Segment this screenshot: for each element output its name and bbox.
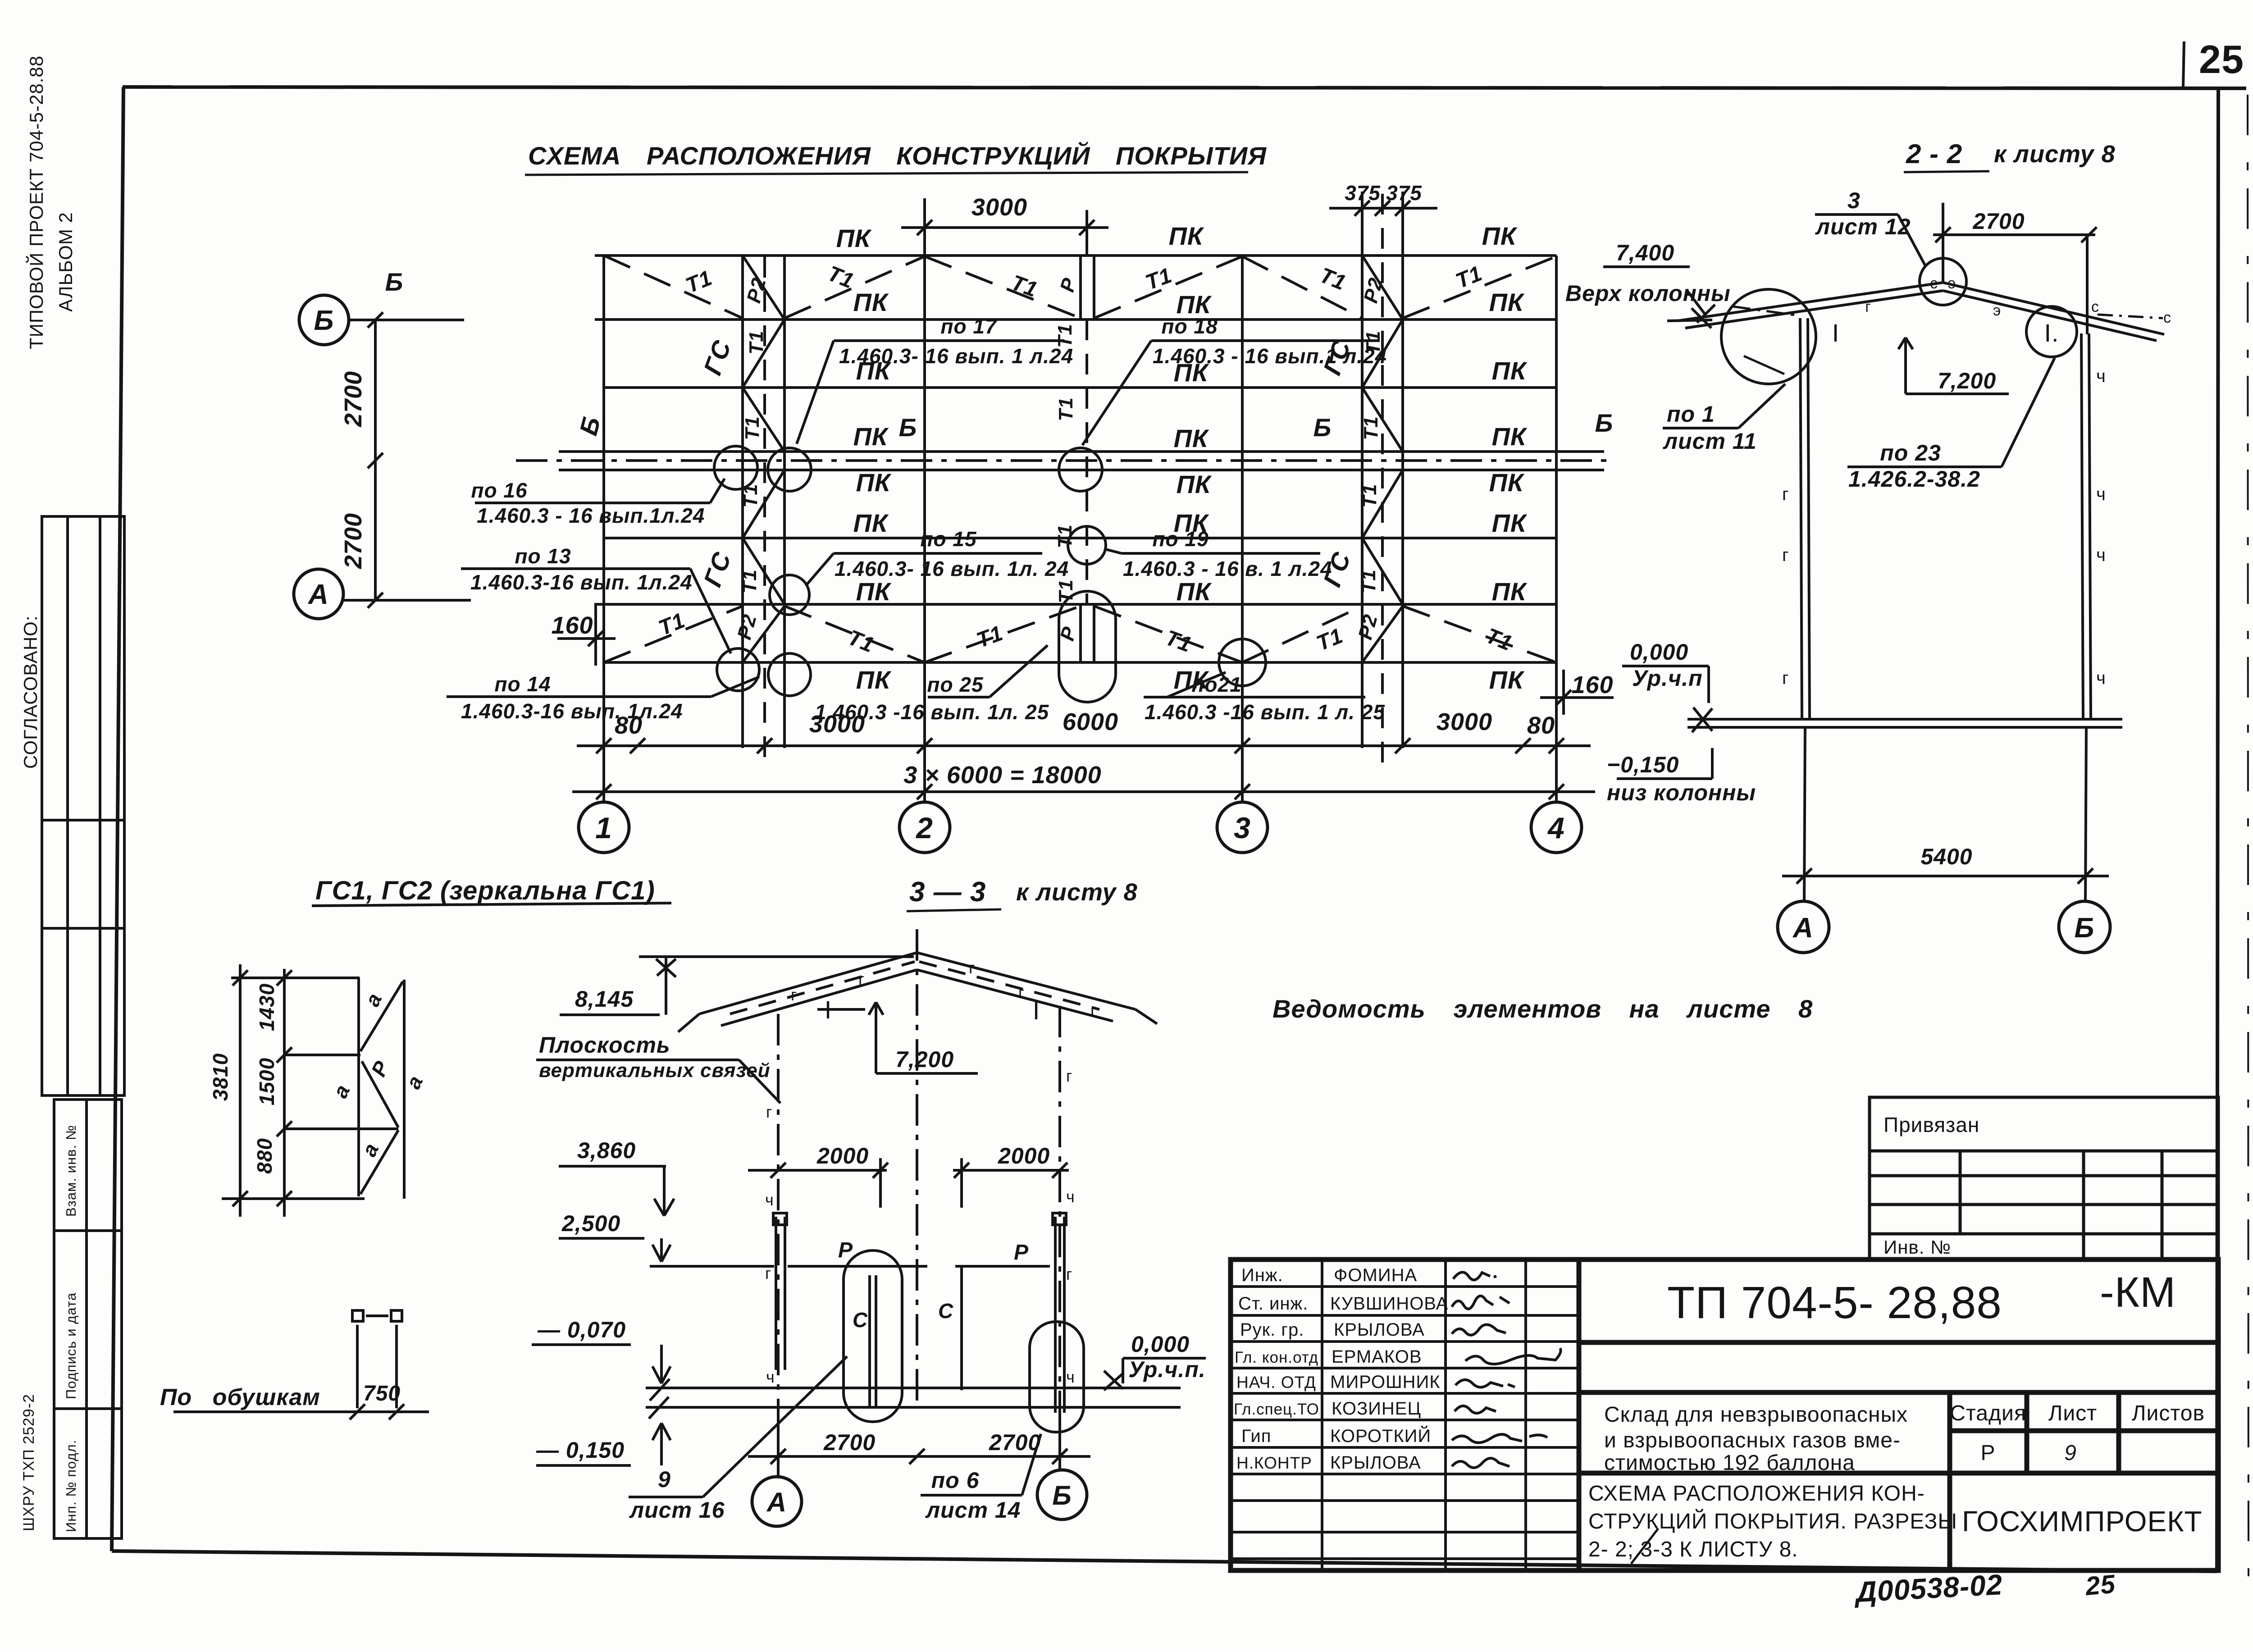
svg-text:1: 1 — [595, 811, 612, 844]
svg-text:2700: 2700 — [1972, 209, 2025, 234]
svg-text:г: г — [1782, 484, 1789, 504]
svg-text:А: А — [766, 1487, 787, 1517]
svg-text:СОГЛАСОВАНО:: СОГЛАСОВАНО: — [20, 616, 41, 769]
svg-text:Т1: Т1 — [1054, 524, 1076, 548]
svg-text:СТРУКЦИЙ ПОКРЫТИЯ. РАЗРЕЗЫ: СТРУКЦИЙ ПОКРЫТИЯ. РАЗРЕЗЫ — [1588, 1509, 1957, 1533]
svg-text:1.460.3-16 вып. 1л.24: 1.460.3-16 вып. 1л.24 — [461, 699, 683, 723]
svg-text:1.460.3- 16 вып. 1л. 24: 1.460.3- 16 вып. 1л. 24 — [835, 557, 1069, 580]
svg-text:по 6: по 6 — [931, 1468, 980, 1493]
svg-text:1.460.3-16 вып. 1л.24: 1.460.3-16 вып. 1л.24 — [470, 570, 693, 594]
svg-text:1.460.3 -16 вып. 1 л. 25: 1.460.3 -16 вып. 1 л. 25 — [1145, 700, 1385, 724]
svg-text:Б: Б — [899, 413, 917, 442]
svg-text:с: с — [2163, 309, 2171, 326]
svg-text:2 - 2: 2 - 2 — [1906, 139, 1962, 169]
svg-text:0,000: 0,000 — [1630, 639, 1688, 665]
svg-text:г: г — [1018, 983, 1025, 1002]
svg-text:ГОСХИМПРОЕКТ: ГОСХИМПРОЕКТ — [1962, 1505, 2203, 1538]
svg-text:ТИПОВОЙ ПРОЕКТ 704-5-28.88: ТИПОВОЙ ПРОЕКТ 704-5-28.88 — [25, 55, 47, 349]
svg-text:ПК: ПК — [856, 666, 892, 694]
svg-text:1.460.3 - 16 в. 1 л.24: 1.460.3 - 16 в. 1 л.24 — [1123, 557, 1332, 580]
svg-text:3000: 3000 — [971, 194, 1027, 221]
svg-text:Стадия: Стадия — [1950, 1401, 2026, 1425]
svg-text:0,000: 0,000 — [1131, 1332, 1190, 1357]
svg-text:ч: ч — [1066, 1187, 1075, 1206]
svg-text:г: г — [1865, 298, 1871, 315]
svg-text:1.426.2-38.2: 1.426.2-38.2 — [1848, 466, 1980, 492]
svg-text:э: э — [1948, 275, 1956, 292]
svg-text:ПК: ПК — [1177, 470, 1212, 498]
svg-text:Гип: Гип — [1241, 1426, 1271, 1446]
svg-text:-КМ: -КМ — [2100, 1269, 2176, 1316]
svg-text:г: г — [1066, 1067, 1072, 1085]
svg-text:к листу 8: к листу 8 — [1994, 141, 2116, 168]
svg-text:2000: 2000 — [816, 1143, 869, 1168]
svg-text:Б: Б — [1595, 409, 1614, 437]
svg-text:1500: 1500 — [255, 1058, 278, 1105]
svg-text:Лист: Лист — [2048, 1401, 2097, 1425]
svg-text:25: 25 — [2199, 37, 2244, 82]
svg-text:160: 160 — [551, 612, 593, 639]
svg-text:Инж.: Инж. — [1241, 1265, 1283, 1285]
svg-text:с: с — [2091, 298, 2099, 315]
svg-text:ПК: ПК — [853, 288, 889, 316]
svg-text:лист 16: лист 16 — [629, 1497, 725, 1523]
svg-text:Т1: Т1 — [739, 569, 761, 593]
svg-text:НАЧ. ОТД: НАЧ. ОТД — [1236, 1373, 1316, 1392]
svg-text:ПК: ПК — [1177, 577, 1212, 606]
svg-text:Подпись и дата: Подпись и дата — [63, 1292, 79, 1399]
svg-text:3 — 3: 3 — 3 — [909, 876, 986, 908]
svg-text:−0,150: −0,150 — [1607, 752, 1679, 777]
svg-text:3: 3 — [1847, 188, 1861, 213]
svg-text:г: г — [1782, 545, 1789, 565]
svg-text:А: А — [307, 579, 329, 610]
svg-text:г: г — [766, 1103, 772, 1121]
svg-text:80: 80 — [1527, 712, 1555, 739]
svg-text:А: А — [1792, 913, 1814, 944]
svg-text:Ур.ч.п.: Ур.ч.п. — [1128, 1357, 1206, 1382]
svg-text:ТП 704-5- 28,88: ТП 704-5- 28,88 — [1667, 1278, 2002, 1328]
svg-text:ч: ч — [2096, 545, 2106, 565]
svg-text:ПК: ПК — [1489, 468, 1525, 497]
svg-text:СХЕМА РАСПОЛОЖЕНИЯ КОНСТРУКЦ: СХЕМА РАСПОЛОЖЕНИЯ КОНСТРУКЦИЙ ПОКРЫТИЯ — [528, 141, 1267, 170]
svg-text:3000: 3000 — [1437, 708, 1492, 735]
svg-text:Привязан: Привязан — [1884, 1113, 1979, 1136]
svg-text:Р: Р — [838, 1238, 853, 1262]
svg-text:2700: 2700 — [340, 513, 367, 569]
svg-text:С: С — [938, 1299, 953, 1323]
svg-text:ПК: ПК — [853, 422, 889, 451]
svg-text:Т1: Т1 — [1055, 397, 1077, 421]
svg-text:ПК: ПК — [856, 468, 892, 497]
svg-text:Взам. инв. №: Взам. инв. № — [63, 1125, 79, 1217]
svg-text:по 25: по 25 — [927, 673, 984, 696]
svg-text:г: г — [969, 958, 975, 977]
svg-text:по 17: по 17 — [940, 315, 998, 338]
svg-text:стимостью 192 баллона: стимостью 192 баллона — [1604, 1451, 1855, 1475]
svg-text:3: 3 — [1234, 811, 1251, 844]
svg-text:7,200: 7,200 — [895, 1047, 954, 1072]
svg-text:ч: ч — [765, 1191, 774, 1209]
svg-text:Ведомость элементов на лист: Ведомость элементов на листе 8 — [1272, 995, 1813, 1023]
svg-text:вертикальных связей: вертикальных связей — [539, 1059, 771, 1082]
svg-text:по 13: по 13 — [515, 544, 571, 568]
svg-text:1.460.3 - 16 вып.1л.24: 1.460.3 - 16 вып.1л.24 — [477, 504, 705, 527]
svg-text:Р: Р — [1980, 1441, 1995, 1465]
svg-text:Т1: Т1 — [1055, 579, 1077, 603]
svg-text:Ур.ч.п: Ур.ч.п — [1632, 666, 1703, 691]
svg-text:ПК: ПК — [1492, 509, 1528, 537]
svg-text:ПК: ПК — [1492, 356, 1528, 385]
svg-text:лист 11: лист 11 — [1663, 429, 1757, 454]
svg-text:750: 750 — [363, 1382, 401, 1406]
svg-text:Т1: Т1 — [1359, 484, 1381, 507]
svg-text:Б: Б — [385, 268, 404, 296]
svg-text:Листов: Листов — [2132, 1401, 2205, 1425]
svg-text:Гл.спец.ТО: Гл.спец.ТО — [1234, 1401, 1319, 1418]
svg-text:3 × 6000 = 18000: 3 × 6000 = 18000 — [903, 762, 1101, 789]
svg-text:ПК: ПК — [1482, 222, 1518, 250]
svg-text:Инв. №: Инв. № — [1884, 1237, 1951, 1258]
svg-text:ГС1, ГС2 (зеркальна ГС1): ГС1, ГС2 (зеркальна ГС1) — [315, 876, 655, 905]
svg-text:г: г — [765, 1264, 771, 1282]
svg-text:1.460.3 -16 вып. 1л. 25: 1.460.3 -16 вып. 1л. 25 — [815, 700, 1049, 724]
svg-text:ФОМИНА: ФОМИНА — [1334, 1265, 1417, 1285]
svg-text:низ колонны: низ колонны — [1607, 780, 1756, 805]
svg-text:2- 2; 3-3 К ЛИСТУ 8.: 2- 2; 3-3 К ЛИСТУ 8. — [1588, 1538, 1798, 1561]
svg-text:2700: 2700 — [989, 1430, 1041, 1455]
svg-text:ПК: ПК — [1492, 422, 1528, 451]
svg-text:э: э — [1993, 302, 2001, 319]
svg-text:г: г — [1090, 1001, 1097, 1020]
svg-text:— 0,150: — 0,150 — [536, 1438, 625, 1463]
svg-text:КРЫЛОВА: КРЫЛОВА — [1330, 1453, 1421, 1473]
svg-text:4: 4 — [1547, 811, 1565, 844]
svg-text:Т1: Т1 — [1360, 416, 1382, 440]
svg-text:160: 160 — [1571, 671, 1613, 698]
svg-text:I: I — [825, 995, 832, 1024]
svg-text:По обушкам: По обушкам — [160, 1384, 320, 1410]
svg-text:6000: 6000 — [1063, 708, 1118, 735]
svg-text:по 16: по 16 — [471, 479, 527, 502]
svg-text:Б: Б — [2075, 913, 2095, 944]
svg-text:375: 375 — [1386, 181, 1422, 205]
svg-text:ч: ч — [2096, 366, 2106, 386]
svg-text:I.: I. — [2044, 319, 2059, 347]
svg-text:КУВШИНОВА: КУВШИНОВА — [1330, 1294, 1448, 1314]
svg-text:и взрывоопасных газов вме-: и взрывоопасных газов вме- — [1604, 1428, 1901, 1452]
svg-text:по 14: по 14 — [494, 672, 551, 696]
svg-text:9: 9 — [658, 1467, 671, 1492]
svg-text:г: г — [791, 986, 797, 1004]
svg-text:по 1: по 1 — [1667, 402, 1715, 427]
svg-text:25: 25 — [2084, 1569, 2116, 1601]
svg-text:ПК: ПК — [1489, 288, 1525, 316]
svg-text:ч: ч — [766, 1368, 775, 1386]
svg-text:I: I — [1832, 319, 1840, 347]
svg-text:1.460.3- 16 вып. 1 л.24: 1.460.3- 16 вып. 1 л.24 — [839, 344, 1073, 368]
svg-text:ПК: ПК — [856, 577, 892, 606]
svg-text:Рук. гр.: Рук. гр. — [1240, 1320, 1304, 1340]
svg-text:АЛЬБОМ 2: АЛЬБОМ 2 — [55, 212, 76, 312]
svg-text:5400: 5400 — [1920, 844, 1972, 869]
svg-text:г: г — [1066, 1265, 1072, 1283]
svg-text:ПК: ПК — [1174, 424, 1209, 452]
svg-text:2: 2 — [915, 811, 933, 844]
svg-text:по 15: по 15 — [920, 527, 977, 551]
svg-text:8,145: 8,145 — [575, 986, 634, 1012]
svg-text:ЕРМАКОВ: ЕРМАКОВ — [1332, 1347, 1422, 1367]
svg-text:Т1: Т1 — [739, 484, 762, 507]
svg-text:ПК: ПК — [1489, 666, 1525, 694]
svg-text:880: 880 — [253, 1138, 276, 1174]
svg-text:2700: 2700 — [823, 1430, 876, 1455]
svg-text:9: 9 — [2064, 1441, 2077, 1465]
svg-text:КРЫЛОВА: КРЫЛОВА — [1334, 1320, 1425, 1340]
svg-text:1430: 1430 — [255, 983, 278, 1031]
svg-text:3810: 3810 — [209, 1053, 232, 1101]
svg-text:ч: ч — [1066, 1368, 1075, 1386]
svg-text:Т1: Т1 — [741, 416, 763, 440]
svg-text:2,500: 2,500 — [561, 1211, 620, 1236]
svg-text:Б: Б — [1313, 413, 1332, 442]
svg-text:лист 12: лист 12 — [1815, 214, 1911, 239]
svg-text:СХЕМА РАСПОЛОЖЕНИЯ КОН-: СХЕМА РАСПОЛОЖЕНИЯ КОН- — [1588, 1482, 1925, 1506]
svg-text:КОРОТКИЙ: КОРОТКИЙ — [1330, 1425, 1431, 1446]
svg-text:к листу 8: к листу 8 — [1016, 879, 1138, 906]
svg-text:С: С — [853, 1308, 868, 1332]
svg-text:Ст. инж.: Ст. инж. — [1238, 1294, 1308, 1314]
svg-text:3,860: 3,860 — [577, 1138, 636, 1163]
svg-text:Р: Р — [1014, 1241, 1029, 1264]
svg-text:1.460.3 - 16 вып.1 л.24: 1.460.3 - 16 вып.1 л.24 — [1153, 344, 1387, 368]
svg-text:г: г — [1782, 668, 1789, 688]
svg-text:Гл. кон.отд: Гл. кон.отд — [1235, 1349, 1318, 1366]
svg-text:2700: 2700 — [340, 371, 367, 427]
svg-text:МИРОШНИК: МИРОШНИК — [1330, 1372, 1441, 1392]
svg-text:по 23: по 23 — [1880, 440, 1941, 465]
svg-text:7,400: 7,400 — [1616, 240, 1674, 265]
svg-text:ПК: ПК — [836, 224, 872, 252]
svg-text:по 18: по 18 — [1161, 315, 1218, 338]
svg-text:с: с — [1930, 275, 1938, 292]
svg-text:Т1: Т1 — [745, 330, 767, 354]
svg-text:Т1: Т1 — [1358, 569, 1380, 593]
svg-text:2000: 2000 — [998, 1143, 1050, 1168]
svg-text:Инп. № подл.: Инп. № подл. — [63, 1440, 79, 1532]
svg-text:КОЗИНЕЦ: КОЗИНЕЦ — [1332, 1399, 1421, 1419]
svg-text:Н.КОНТР: Н.КОНТР — [1236, 1454, 1312, 1472]
svg-text:по 19: по 19 — [1152, 527, 1209, 551]
svg-text:I: I — [1033, 996, 1040, 1025]
svg-text:лист 14: лист 14 — [925, 1497, 1021, 1523]
svg-text:Б: Б — [1052, 1480, 1072, 1511]
svg-text:Б: Б — [314, 305, 334, 336]
svg-text:ПК: ПК — [853, 509, 889, 537]
svg-text:г: г — [858, 970, 865, 988]
svg-text:7,200: 7,200 — [1938, 368, 1996, 393]
svg-text:ПК: ПК — [1492, 577, 1528, 606]
svg-text:ПК: ПК — [1169, 222, 1204, 250]
svg-text:375: 375 — [1345, 181, 1381, 205]
svg-text:ШХРУ ТХП 2529-2: ШХРУ ТХП 2529-2 — [20, 1394, 37, 1531]
svg-text:Склад для невзрывоопасных: Склад для невзрывоопасных — [1604, 1403, 1908, 1427]
svg-text:ч: ч — [2096, 668, 2106, 688]
svg-text:Плоскость: Плоскость — [539, 1032, 670, 1058]
svg-text:ч: ч — [2096, 484, 2106, 504]
svg-text:Верх колонны: Верх колонны — [1565, 281, 1731, 306]
svg-text:— 0,070: — 0,070 — [537, 1317, 626, 1342]
